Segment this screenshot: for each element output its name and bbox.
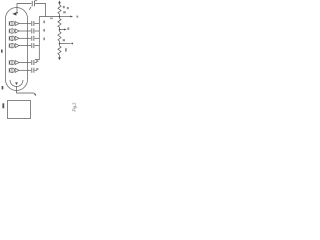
svg-text:Fig.2: Fig.2 <box>71 103 76 113</box>
